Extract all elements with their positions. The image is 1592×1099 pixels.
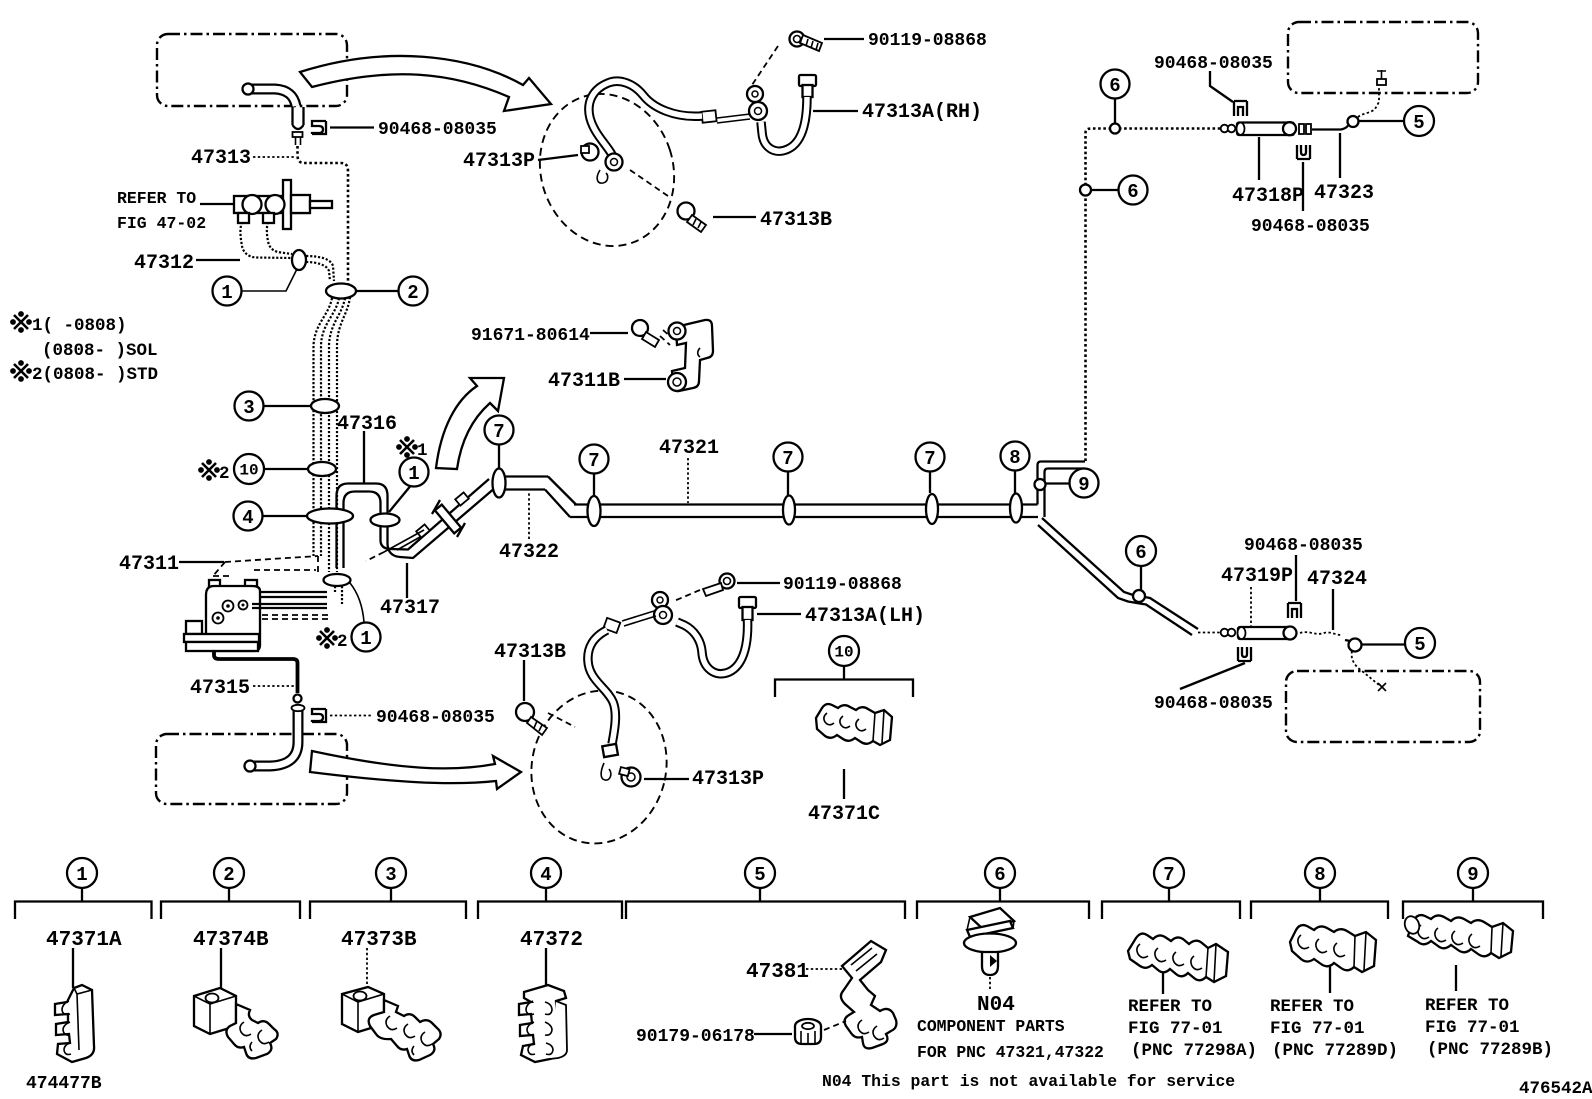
svg-text:2: 2 — [223, 864, 234, 886]
svg-text:47313P: 47313P — [692, 768, 764, 791]
svg-text:47318P: 47318P — [1232, 185, 1304, 208]
svg-text:(PNC 77289B): (PNC 77289B) — [1427, 1040, 1553, 1060]
svg-text:8: 8 — [1314, 864, 1325, 886]
svg-text:90119-08868: 90119-08868 — [783, 575, 902, 595]
svg-text:47322: 47322 — [499, 541, 559, 564]
svg-text:47319P: 47319P — [1221, 565, 1293, 588]
svg-text:2: 2 — [337, 632, 348, 652]
svg-text:10: 10 — [834, 644, 853, 662]
svg-text:90468-08035: 90468-08035 — [1251, 217, 1370, 237]
svg-text:2: 2 — [219, 464, 230, 484]
svg-text:7: 7 — [493, 421, 504, 443]
svg-text:476542A: 476542A — [1519, 1079, 1592, 1099]
svg-text:47324: 47324 — [1307, 568, 1367, 591]
svg-text:47313B: 47313B — [494, 641, 566, 664]
svg-text:47313A(LH): 47313A(LH) — [805, 605, 925, 628]
svg-text:47313B: 47313B — [760, 209, 832, 232]
svg-text:1( -0808): 1( -0808) — [32, 316, 127, 336]
svg-text:47373B: 47373B — [341, 929, 417, 952]
svg-text:47323: 47323 — [1314, 182, 1374, 205]
svg-text:FOR PNC 47321,47322: FOR PNC 47321,47322 — [917, 1043, 1104, 1062]
svg-text:6: 6 — [1109, 75, 1120, 97]
svg-text:1: 1 — [408, 463, 419, 485]
svg-text:1: 1 — [221, 282, 232, 304]
svg-text:3: 3 — [385, 864, 396, 886]
svg-text:1: 1 — [417, 441, 428, 461]
svg-text:5: 5 — [1414, 634, 1425, 656]
svg-text:FIG 77-01: FIG 77-01 — [1128, 1019, 1223, 1039]
svg-text:2(0808- )STD: 2(0808- )STD — [32, 365, 158, 385]
svg-text:90468-08035: 90468-08035 — [376, 708, 495, 728]
svg-text:6: 6 — [1127, 181, 1138, 203]
svg-text:REFER TO: REFER TO — [1128, 997, 1212, 1017]
svg-text:47313: 47313 — [191, 147, 251, 170]
svg-text:4: 4 — [540, 864, 551, 886]
svg-text:47371A: 47371A — [46, 929, 122, 952]
svg-text:6: 6 — [994, 864, 1005, 886]
svg-text:90119-08868: 90119-08868 — [868, 31, 987, 51]
svg-text:1: 1 — [76, 864, 87, 886]
svg-text:47317: 47317 — [380, 597, 440, 620]
svg-text:47313P: 47313P — [463, 150, 535, 173]
svg-text:(0808- )SOL: (0808- )SOL — [42, 341, 158, 361]
svg-text:91671-80614: 91671-80614 — [471, 326, 590, 346]
svg-text:(PNC 77289D): (PNC 77289D) — [1272, 1041, 1398, 1061]
svg-text:REFER TO: REFER TO — [1270, 997, 1354, 1017]
svg-text:90468-08035: 90468-08035 — [378, 120, 497, 140]
svg-text:N04 This part is not available: N04 This part is not available for servi… — [822, 1072, 1235, 1091]
svg-text:47315: 47315 — [190, 677, 250, 700]
svg-text:1: 1 — [360, 628, 371, 650]
svg-text:REFER TO: REFER TO — [117, 189, 196, 208]
svg-text:FIG 47-02: FIG 47-02 — [117, 214, 206, 233]
svg-text:90179-06178: 90179-06178 — [636, 1027, 755, 1047]
svg-text:7: 7 — [588, 450, 599, 472]
svg-text:47381: 47381 — [746, 961, 809, 984]
svg-text:47312: 47312 — [134, 252, 194, 275]
svg-text:3: 3 — [243, 397, 254, 419]
svg-text:6: 6 — [1135, 542, 1146, 564]
svg-text:(PNC 77298A): (PNC 77298A) — [1131, 1041, 1257, 1061]
svg-text:90468-08035: 90468-08035 — [1244, 536, 1363, 556]
svg-text:2: 2 — [407, 282, 418, 304]
svg-text:90468-08035: 90468-08035 — [1154, 694, 1273, 714]
svg-text:9: 9 — [1078, 474, 1089, 496]
svg-text:4: 4 — [242, 507, 253, 529]
svg-text:REFER TO: REFER TO — [1425, 996, 1509, 1016]
svg-text:7: 7 — [924, 448, 935, 470]
svg-text:7: 7 — [1163, 864, 1174, 886]
svg-text:47374B: 47374B — [193, 929, 269, 952]
svg-text:FIG 77-01: FIG 77-01 — [1425, 1018, 1520, 1038]
svg-text:9: 9 — [1467, 864, 1478, 886]
svg-text:474477B: 474477B — [26, 1074, 102, 1094]
svg-text:5: 5 — [754, 864, 765, 886]
svg-text:8: 8 — [1009, 447, 1020, 469]
svg-text:COMPONENT PARTS: COMPONENT PARTS — [917, 1017, 1065, 1036]
svg-text:47316: 47316 — [337, 413, 397, 436]
svg-text:FIG 77-01: FIG 77-01 — [1270, 1019, 1365, 1039]
svg-text:5: 5 — [1413, 112, 1424, 134]
svg-text:N04: N04 — [977, 994, 1015, 1017]
svg-text:47313A(RH): 47313A(RH) — [862, 101, 982, 124]
svg-text:47311: 47311 — [119, 553, 179, 576]
svg-text:90468-08035: 90468-08035 — [1154, 54, 1273, 74]
svg-text:47372: 47372 — [520, 929, 583, 952]
svg-text:47311B: 47311B — [548, 370, 620, 393]
svg-text:47371C: 47371C — [808, 803, 880, 826]
svg-text:10: 10 — [239, 462, 258, 480]
svg-text:7: 7 — [782, 448, 793, 470]
svg-text:47321: 47321 — [659, 437, 719, 460]
